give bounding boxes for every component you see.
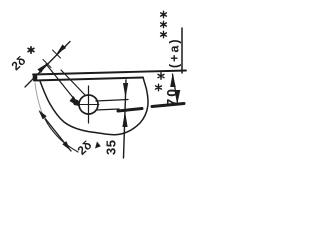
svg-text:70: 70 [164,87,180,107]
svg-text:35: 35 [104,140,119,155]
svg-text:(+a): (+a) [168,37,182,68]
